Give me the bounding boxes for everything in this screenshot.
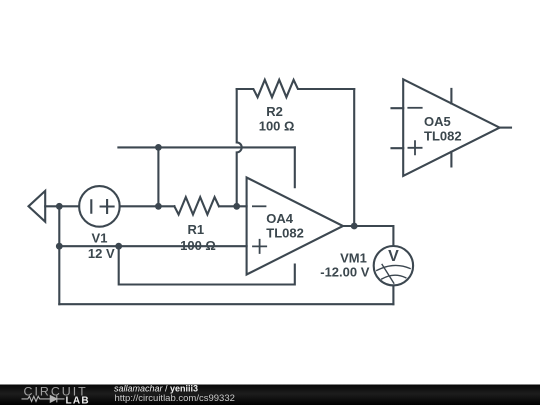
node plus-wire left rail junction dot: [56, 243, 63, 250]
wire OA4 output to VM1: [343, 226, 393, 246]
svg-text:V1: V1: [92, 230, 108, 245]
node V1 plus junction dot: [155, 203, 162, 210]
svg-text:V: V: [388, 248, 399, 265]
svg-text:TL082: TL082: [266, 226, 304, 241]
voltmeter VM1: [374, 246, 413, 285]
wire V+ supply drop to OA4: [294, 147, 296, 187]
wire V1 plus to R1: [120, 205, 175, 207]
svg-text:R2: R2: [266, 104, 283, 119]
wire OA4 non-inverting input: [59, 245, 246, 247]
svg-text:100 Ω: 100 Ω: [180, 238, 216, 253]
op-amp OA5: [392, 79, 512, 176]
node top rail junction dot: [155, 144, 162, 151]
wire ground to V1: [45, 205, 79, 207]
wire V- supply loop: [119, 246, 295, 284]
ground: [29, 191, 46, 222]
wire left rail (ground node down): [58, 206, 60, 304]
resistor R1: [174, 197, 218, 214]
footer bar: [0, 385, 540, 405]
wire R2 right leg: [353, 89, 355, 226]
resistor R2: [237, 80, 355, 97]
wire bottom rail: [59, 303, 393, 305]
svg-text:OA4: OA4: [266, 211, 294, 226]
node output junction dot: [351, 223, 358, 230]
svg-text:TL082: TL082: [424, 128, 462, 143]
svg-text:http://circuitlab.com/cs99332: http://circuitlab.com/cs99332: [115, 393, 235, 404]
svg-text:OA5: OA5: [424, 114, 451, 129]
node R2 feedback junction dot: [233, 203, 240, 210]
svg-text:VM1: VM1: [340, 251, 367, 266]
svg-text:R1: R1: [187, 222, 204, 237]
svg-text:-12.00 V: -12.00 V: [320, 264, 369, 279]
wire R2 left leg with hop: [237, 89, 242, 206]
wire R1 to OA4 inverting input: [219, 205, 246, 207]
node V-minus tap junction dot: [115, 243, 122, 250]
svg-text:LAB: LAB: [66, 396, 90, 405]
wire top rail: [118, 146, 294, 148]
svg-text:sallamachar / yeniii3: sallamachar / yeniii3: [114, 383, 198, 393]
wire VM1 bottom: [392, 285, 394, 304]
node ground junction dot: [56, 203, 63, 210]
wire V1 node up to top rail: [157, 147, 159, 206]
voltage source V1: [79, 186, 120, 227]
op-amp OA4: [247, 178, 343, 275]
svg-text:12 V: 12 V: [88, 246, 115, 261]
CircuitLab logo mini schematic: [22, 395, 65, 402]
svg-text:100 Ω: 100 Ω: [259, 118, 295, 133]
